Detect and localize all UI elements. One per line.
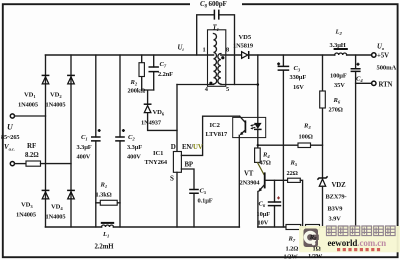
svg-text:RTN: RTN: [379, 82, 393, 89]
svg-text:LTV817: LTV817: [206, 131, 228, 138]
svg-text:1.3kΩ: 1.3kΩ: [96, 192, 112, 199]
svg-text:BZX79-: BZX79-: [326, 194, 347, 201]
svg-text:0.1µF: 0.1µF: [198, 198, 213, 205]
wire: clamp junction: [142, 90, 154, 104]
svg-text:3.3µH: 3.3µH: [330, 42, 346, 49]
resistor R3 100: [298, 143, 311, 148]
capacitor C6 10uF 10V: [274, 180, 276, 227]
svg-text:100Ω: 100Ω: [299, 134, 313, 141]
capacitor C7 2.2nF: [153, 55, 155, 90]
transformer T1: [208, 30, 226, 87]
wire: bridge leg 2: [70, 55, 72, 227]
svg-text:2.2mH: 2.2mH: [95, 244, 115, 251]
svg-text:2N3904: 2N3904: [240, 180, 261, 187]
node: AC input terminal 2: [10, 162, 14, 166]
opto phototransistor: [240, 116, 246, 122]
svg-text:1N4005: 1N4005: [46, 102, 66, 109]
svg-text:1N4937: 1N4937: [141, 120, 162, 127]
svg-text:400V: 400V: [77, 154, 91, 161]
svg-text:1/2W: 1/2W: [284, 254, 299, 260]
wire: EN/UV line to opto: [181, 116, 239, 155]
capacitor C5 0.1uF: [189, 190, 199, 194]
IC IC1 TNY264: [173, 152, 181, 173]
resistor R6 270: [322, 55, 324, 178]
capacitor C2 3.3uF 400V: [119, 55, 121, 227]
node: pin5 junction: [257, 83, 260, 86]
resistor R7 1.2: [286, 225, 301, 230]
svg-text:270Ω: 270Ω: [329, 107, 343, 114]
diode VD5 1N5819: [242, 52, 248, 59]
wire: BP line: [181, 169, 194, 227]
svg-text:400V: 400V: [127, 154, 141, 161]
svg-text:B3V9: B3V9: [328, 206, 343, 213]
diode VD1 1N4005: [42, 74, 50, 76]
resistor RF 8.2ohm: [26, 161, 41, 166]
svg-text:5: 5: [226, 86, 229, 93]
node: +5V output terminal: [372, 53, 376, 57]
node: phase dot secondary: [221, 56, 224, 59]
svg-text:+5V: +5V: [377, 53, 389, 60]
svg-text:2.2nF: 2.2nF: [158, 71, 173, 78]
wire: primary bottom bus: [46, 226, 240, 228]
node: LED cathode junction: [257, 144, 259, 146]
capacitor C1 3.3uF 400V: [95, 55, 97, 227]
node: RTN terminal: [356, 82, 372, 84]
inductor L1 2.2mH: [102, 225, 114, 227]
svg-text:10µF: 10µF: [257, 211, 271, 218]
svg-text:1N5819: 1N5819: [233, 43, 253, 50]
svg-text:1Ω: 1Ω: [313, 246, 321, 253]
watermark text eeworld: [327, 226, 396, 236]
svg-text:8.2Ω: 8.2Ω: [25, 152, 39, 159]
svg-text:1N4005: 1N4005: [46, 214, 66, 221]
svg-text:D: D: [171, 143, 176, 151]
svg-text:85~265: 85~265: [1, 134, 19, 141]
wire: opto emitter to primary ground: [238, 135, 240, 227]
svg-text:TNY264: TNY264: [145, 159, 168, 166]
wire: secondary +5V rail: [249, 54, 372, 56]
wire: source line: [176, 172, 178, 227]
svg-text:1N4005: 1N4005: [16, 212, 36, 219]
svg-text:35V: 35V: [334, 82, 345, 89]
svg-text:1: 1: [203, 47, 206, 54]
resistor R1 1.3k: [96, 202, 120, 204]
svg-text:100µF: 100µF: [330, 73, 347, 80]
svg-text:1/2W: 1/2W: [308, 253, 323, 260]
resistor R5 22: [288, 178, 301, 182]
svg-text:330µF: 330µF: [290, 74, 307, 81]
diode VD3 1N4005: [42, 189, 50, 191]
resistor R4 47: [255, 148, 261, 162]
node: phase dot primary: [209, 82, 212, 85]
watermark: [299, 226, 400, 252]
svg-text:C8 600pF: C8 600pF: [200, 0, 227, 9]
svg-text:VT: VT: [244, 171, 254, 178]
diode VD6 1N4937: [144, 103, 152, 105]
svg-text:10V: 10V: [258, 220, 269, 227]
wire: base line: [266, 179, 288, 181]
inductor L2 3.3uH: [335, 53, 347, 55]
svg-text:3.3µF: 3.3µF: [127, 144, 142, 151]
svg-text:eeworld.com.cn: eeworld.com.cn: [328, 238, 387, 248]
svg-text:8: 8: [226, 47, 229, 54]
optocoupler IC2 LTV817: [233, 117, 266, 137]
svg-text:22Ω: 22Ω: [287, 170, 298, 177]
wire: bridge leg 1: [45, 55, 47, 227]
wire: primary top bus: [46, 54, 214, 56]
svg-text:VD5: VD5: [239, 34, 252, 41]
diode VD2 1N4005: [67, 74, 75, 76]
capacitor C4 100uF 35V: [355, 55, 357, 227]
diode VD4 1N4005: [67, 189, 75, 191]
svg-text:S: S: [170, 175, 174, 183]
wire: secondary ground rail: [258, 226, 356, 228]
svg-text:16V: 16V: [293, 84, 304, 91]
wire: transformer pin4 lead: [177, 84, 214, 86]
capacitor C8 600pF: [197, 15, 235, 85]
wire: secondary top lead pin8: [221, 54, 241, 56]
svg-text:EN/UV: EN/UV: [182, 144, 203, 151]
wire: feedback tap R3 row: [258, 144, 323, 146]
svg-text:3.3µF: 3.3µF: [77, 144, 92, 151]
svg-text:VDZ: VDZ: [332, 182, 347, 189]
svg-text:3.9V: 3.9V: [329, 216, 342, 223]
svg-text:RF: RF: [27, 142, 36, 150]
transistor VT 2N3904: [257, 162, 264, 175]
wire: drain line: [176, 85, 178, 152]
capacitor C3 330uF 16V: [282, 55, 284, 227]
wire: transformer pin5 lead: [221, 84, 258, 86]
resistor R8 1: [306, 225, 320, 230]
svg-text:IC2: IC2: [210, 122, 221, 129]
zener VDZ BZX79-B3V9: [317, 176, 327, 179]
svg-text:IC1: IC1: [153, 150, 163, 157]
opto LED: [257, 55, 259, 148]
svg-text:1.2Ω: 1.2Ω: [286, 246, 299, 253]
node: AC input terminal 1 (U 85~265 Vac): [10, 114, 14, 118]
svg-text:BP: BP: [185, 162, 194, 169]
svg-text:500mA: 500mA: [377, 65, 397, 72]
svg-text:200kΩ: 200kΩ: [128, 88, 146, 95]
resistor R2 200k: [141, 55, 143, 90]
svg-text:1N4005: 1N4005: [18, 102, 38, 109]
svg-text:47Ω: 47Ω: [260, 160, 271, 167]
